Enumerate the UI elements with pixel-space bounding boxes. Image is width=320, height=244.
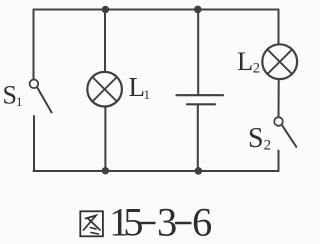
capacitor top plate (177, 94, 224, 96)
图 outer box (80, 211, 103, 236)
图 inner stroke: right-falling diagonal (88, 219, 100, 231)
wire between L2 and S2 (278, 79, 280, 116)
wire capacitor branch upper (197, 10, 199, 96)
lamp L2 cross stroke 2 (267, 49, 292, 74)
svg-text:L1: L1 (129, 72, 151, 102)
svg-text:6: 6 (192, 199, 212, 244)
wire bottom horizontal (34, 170, 279, 172)
lamp L2 cross stroke 1 (267, 49, 292, 74)
caption dash 2 (175, 222, 192, 224)
wire right upper vertical (278, 10, 280, 45)
wire left lower vertical (33, 116, 35, 171)
svg-text:S2: S2 (248, 123, 271, 154)
wire top horizontal (34, 9, 279, 11)
lamp L1 cross stroke 2 (92, 77, 117, 102)
图 inner stroke: upper small tick (91, 228, 97, 230)
switch S2 blade (282, 125, 296, 147)
junction node bottom-right (195, 167, 203, 175)
caption character 图 drawn as strokes (80, 211, 103, 236)
caption dash 1 (140, 222, 156, 224)
svg-text:S1: S1 (3, 81, 23, 110)
wire right lower vertical (278, 151, 280, 172)
svg-text:L2: L2 (237, 46, 260, 77)
lamp L2 circle (262, 44, 297, 79)
lamp L1 circle (87, 72, 122, 107)
wire capacitor branch lower (197, 105, 199, 171)
wire lamp L1 branch lower (104, 107, 106, 171)
svg-text:3: 3 (157, 199, 177, 244)
lamp L1 cross stroke 1 (92, 77, 117, 102)
svg-text:15: 15 (109, 199, 142, 244)
capacitor bottom plate (187, 103, 215, 105)
switch S1 blade (37, 88, 51, 113)
junction node bottom-left (102, 167, 109, 174)
switch S1 contact circle (30, 80, 39, 89)
wire left upper vertical (33, 10, 35, 80)
wire lamp L1 branch upper (104, 10, 106, 73)
图 inner stroke: lower small tick (91, 233, 99, 235)
junction node top-left (102, 6, 109, 13)
switch S2 contact circle (274, 117, 283, 126)
图 inner stroke: top horizontal with left-falling hook (84, 216, 97, 231)
junction node top-right (194, 6, 202, 14)
